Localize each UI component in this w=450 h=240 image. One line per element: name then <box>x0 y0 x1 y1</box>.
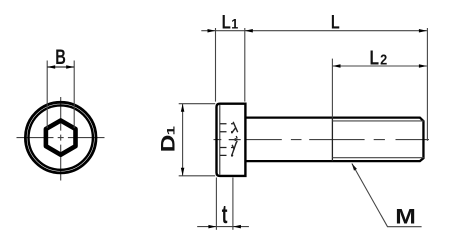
dimension t extension line right <box>232 178 234 230</box>
dimension L extension line right <box>426 28 428 141</box>
socket cone lower near-tip dash <box>236 141 237 144</box>
dimension t arrow right <box>233 225 241 229</box>
dimension B extension line right <box>73 61 75 129</box>
dimension D1 extension line bottom <box>179 175 216 177</box>
dimension t outside tail right <box>233 226 249 228</box>
svg-text:D: D <box>157 135 179 153</box>
centerline vertical (end view) <box>60 97 62 181</box>
dimension t outside tail left <box>197 226 216 228</box>
screw head outline (side view) <box>217 104 246 176</box>
socket cone lower leg <box>232 145 234 150</box>
socket cone tip centerline dash <box>229 139 241 141</box>
dimension D1 arrow top <box>181 104 185 112</box>
svg-text:1: 1 <box>231 16 239 32</box>
svg-text:1: 1 <box>164 126 177 135</box>
dimension L line <box>245 30 427 32</box>
centerline of screw (side view) <box>214 139 430 141</box>
dimension B line <box>47 66 74 68</box>
dimension L arrow left <box>245 29 253 33</box>
dimension D1 line <box>182 104 184 176</box>
dimension L1 line between extensions <box>216 30 245 32</box>
dimension L2 line <box>333 65 427 67</box>
socket cone tip arrow <box>235 138 239 141</box>
dimension t line between extensions <box>216 226 233 228</box>
svg-text:2: 2 <box>380 51 387 68</box>
dimension D1 extension line top <box>179 103 216 105</box>
svg-text:L: L <box>331 12 340 33</box>
dimension L1 outside tail <box>201 30 215 32</box>
hex socket hidden line row 1 <box>220 123 233 125</box>
socket cone lower leg end dot <box>231 155 233 157</box>
dimension B arrow right <box>66 65 74 69</box>
hex socket (end view) <box>46 121 76 155</box>
head outer circle (end view) <box>25 102 96 173</box>
thread minor diameter line top <box>332 120 423 122</box>
socket cone upper leg end dot <box>231 132 233 134</box>
dimension B extension line left <box>46 61 48 129</box>
socket cone upper leg <box>232 128 236 133</box>
socket cone lower diagonal (y shape) <box>232 142 237 156</box>
svg-text:B: B <box>55 45 66 68</box>
dimension L1 arrow <box>208 29 216 33</box>
dimension B arrow left <box>47 65 55 69</box>
dimension t extension line left <box>215 178 217 230</box>
dimension L2 arrow right <box>419 64 427 68</box>
dimension L2 extension line left / thread start extension <box>331 59 333 118</box>
thread leader line M <box>352 164 422 227</box>
svg-text:M: M <box>395 204 416 228</box>
dimension L2 arrow left <box>333 64 341 68</box>
hex socket hidden line row 2 <box>220 131 233 133</box>
dimension L1 extension line right <box>244 28 246 102</box>
thread start line <box>331 118 333 162</box>
centerline horizontal (end view) <box>17 137 105 139</box>
hex socket hidden line row 4 <box>220 154 233 156</box>
thread minor diameter line bottom <box>332 157 423 159</box>
dimension t arrow left <box>208 225 216 229</box>
dimension D1 arrow bottom <box>181 168 185 176</box>
socket cone upper diagonal (lambda) <box>233 122 238 132</box>
dimension L1 extension line left <box>215 28 217 102</box>
head chamfer circle (end view) <box>29 105 93 169</box>
head chamfer line <box>219 105 221 175</box>
shank and thread outline (side view) <box>246 118 424 162</box>
hex socket hidden line row 3 <box>220 147 233 149</box>
thread leader arrowhead <box>352 163 357 170</box>
svg-text:L: L <box>222 11 232 33</box>
svg-text:t: t <box>222 200 228 230</box>
socket cone upper near-tip dash <box>236 136 237 139</box>
dimension L arrow right <box>419 29 427 33</box>
svg-text:L: L <box>370 46 380 68</box>
